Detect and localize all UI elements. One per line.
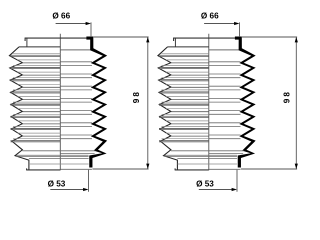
left extension line Ø 53	[88, 170, 90, 192]
left boot: centre line	[59, 34, 61, 171]
right dimension 98: bottom extension line	[241, 168, 297, 170]
right dimension 98: top extension line	[242, 36, 297, 38]
svg-text:Ø 53: Ø 53	[48, 180, 66, 189]
right extension line Ø 66	[239, 22, 241, 37]
right dimension line Ø 66 with arrow	[204, 23, 235, 25]
svg-text:Ø 66: Ø 66	[201, 12, 219, 21]
left dimension line Ø 53 with arrow	[50, 189, 84, 191]
right boot: thick sectioned wall (black zigzag)	[235, 36, 256, 167]
left boot: collar mid line	[29, 163, 89, 165]
left boot: section inner-wall lines (right of centre)	[60, 50, 92, 139]
left boot: neck left edge	[26, 38, 28, 47]
right boot: centre line	[208, 34, 210, 171]
left boot: shoulder line left of centre	[19, 46, 60, 48]
right extension line Ø 53	[236, 170, 238, 192]
right boot: left pleat profile outline	[158, 47, 178, 170]
right boot: neck left edge	[174, 38, 176, 47]
right boot: pleat ridge/valley lines (left of centre)	[159, 55, 209, 142]
svg-text:98: 98	[132, 90, 141, 103]
left dimension 98: arrowheads	[146, 37, 149, 42]
left dimension 98: bottom extension line	[92, 168, 148, 170]
right dimension 98: vertical dimension line	[295, 37, 297, 169]
left boot: top edge line with end tick	[25, 38, 87, 41]
right boot: shoulder line left of centre	[168, 46, 209, 48]
left boot: bottom edge right of centre	[60, 168, 92, 170]
svg-text:98: 98	[283, 90, 292, 103]
right boot: collar mid line	[177, 163, 237, 165]
svg-text:Ø 66: Ø 66	[52, 12, 70, 21]
left boot: bottom edge line with end tick	[26, 168, 60, 170]
right dimension 98: arrowheads	[295, 37, 298, 42]
left boot: secondary fold lines (left of centre)	[13, 53, 60, 138]
left boot: thick sectioned wall (black zigzag)	[86, 36, 107, 167]
right boot: secondary fold lines (left of centre)	[162, 53, 209, 138]
left boot: left pleat profile outline	[9, 47, 29, 170]
svg-text:Ø 53: Ø 53	[196, 180, 214, 189]
right boot: section inner-wall lines (right of centre)	[209, 50, 241, 139]
right boot: bottom flange lines	[165, 151, 244, 159]
right boot: shoulder line right of centre	[209, 49, 240, 51]
left boot: shoulder line right of centre	[60, 49, 91, 51]
left dimension 98: top extension line	[94, 36, 149, 38]
left extension line Ø 66	[90, 22, 92, 37]
left boot: bottom flange lines	[16, 151, 95, 159]
right dimension line Ø 53 with arrow	[199, 189, 233, 191]
right boot: bottom edge line with end tick	[175, 168, 209, 170]
right boot: top edge line with end tick	[173, 38, 236, 41]
right boot: bottom edge right of centre	[209, 168, 241, 170]
left boot: pleat ridge/valley lines (left of centre)	[11, 55, 61, 142]
left dimension 98: vertical dimension line	[147, 37, 149, 169]
left dimension line Ø 66 with arrow	[56, 23, 87, 25]
